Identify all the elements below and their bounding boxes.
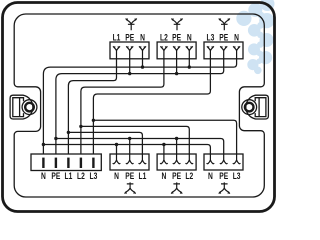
wire X5 N riser [116, 145, 118, 160]
junction dots on top buses [128, 65, 191, 75]
right mounting tab [242, 95, 269, 119]
svg-text:N: N [234, 32, 239, 42]
svg-text:L3: L3 [206, 32, 214, 42]
svg-text:PE: PE [219, 171, 228, 181]
wire PE distribution (lower) [56, 139, 224, 160]
svg-text:N: N [208, 171, 213, 181]
svg-text:PE: PE [125, 32, 134, 42]
svg-text:N: N [114, 171, 119, 181]
cable entry symbol above connector X1 [126, 18, 137, 30]
cable entry symbol above connector X2 [172, 18, 183, 30]
svg-text:L2: L2 [77, 171, 85, 181]
svg-text:PE: PE [172, 32, 181, 42]
svg-text:N: N [140, 32, 145, 42]
wire PE bus (top) [56, 51, 224, 158]
connector X2 (top, L2 PE N) [157, 42, 196, 59]
svg-text:L2: L2 [160, 32, 168, 42]
wire L1 distribution (lower) [68, 132, 142, 160]
X6 clamp contacts [160, 154, 193, 164]
X1 clamp contacts [113, 46, 146, 59]
X2 clamp contacts [160, 46, 192, 59]
svg-text:L3: L3 [89, 171, 97, 181]
wire L2 bus [81, 51, 164, 158]
wire X2 N pin drop [188, 51, 190, 68]
watermark logo [236, 0, 274, 74]
connector X7 (bottom, N PE L3) [204, 154, 243, 170]
wire L3 distribution (lower) [93, 120, 236, 160]
connector X5 (bottom, N PE L1) [110, 154, 149, 170]
wire N distribution (lower) [43, 145, 210, 160]
wire X6 PE riser [176, 139, 178, 160]
wire X5 PE riser [129, 139, 131, 160]
svg-text:L1: L1 [113, 32, 121, 42]
svg-text:PE: PE [172, 171, 181, 181]
connector X1 (top, L1 PE N) [110, 42, 149, 59]
wire X1 PE pin drop [129, 51, 131, 74]
connector X3 (top, L3 PE N) [204, 42, 243, 59]
left mounting tab [10, 95, 37, 119]
X4 pin contacts [42, 158, 94, 168]
X7 clamp contacts [207, 154, 241, 164]
enclosure outer border [3, 3, 275, 212]
wire X1 N pin drop [142, 51, 144, 68]
wire X2 PE pin drop [176, 51, 178, 74]
X5 clamp contacts [113, 154, 147, 164]
connector X6 (bottom, N PE L2) [157, 154, 196, 170]
svg-text:N: N [161, 171, 166, 181]
svg-text:L1: L1 [64, 171, 72, 181]
junction dots on lower distribution wires [42, 119, 179, 147]
svg-text:L2: L2 [185, 171, 193, 181]
cable outlet symbol below connector X5 [125, 182, 136, 193]
wire L1 bus [68, 51, 116, 158]
wire L2 distribution (lower) [81, 126, 189, 159]
svg-text:N: N [41, 171, 46, 181]
svg-text:L1: L1 [138, 171, 146, 181]
cable outlet symbol below connector X7 [219, 182, 230, 193]
svg-text:L3: L3 [233, 171, 241, 181]
wire L3 bus [93, 51, 210, 158]
svg-text:PE: PE [219, 32, 228, 42]
svg-text:N: N [187, 32, 192, 42]
wire N bus (top) [43, 58, 236, 158]
enclosure lid seam with tab notches [14, 14, 264, 197]
X3 clamp contacts [207, 46, 240, 59]
svg-text:PE: PE [125, 171, 134, 181]
connector X4 (feed-in, N PE L1 L2 L3) [31, 154, 101, 171]
svg-text:PE: PE [51, 171, 60, 181]
cable outlet symbol below connector X6 [171, 182, 182, 193]
wire X6 N riser [163, 145, 165, 160]
cable entry symbol above connector X3 [219, 18, 230, 30]
